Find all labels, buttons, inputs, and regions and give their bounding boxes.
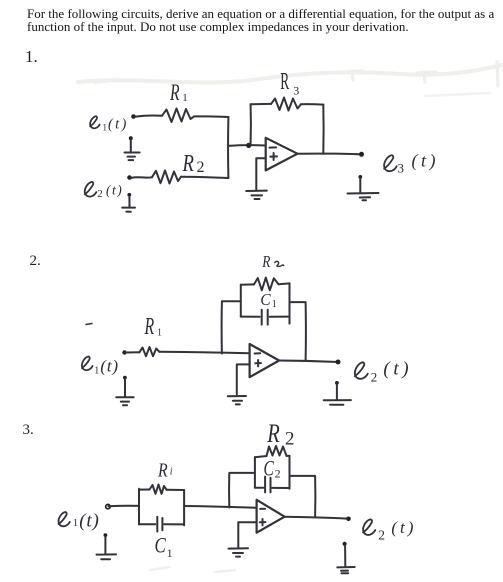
capacitor C1 c2 — [241, 310, 290, 325]
svg-text:C: C — [260, 291, 270, 309]
wire parallel block right c2 — [289, 283, 291, 323]
svg-text:(t): (t) — [412, 150, 440, 171]
svg-text:2: 2 — [97, 188, 103, 200]
node e1 input c3 — [106, 504, 110, 508]
wire + input to ground c3 — [238, 522, 256, 547]
svg-text:3: 3 — [398, 161, 405, 176]
ground below e1 — [125, 136, 140, 160]
node e1 input c2 — [122, 350, 126, 354]
wire op-amp output c3 — [285, 517, 347, 519]
svg-text:2: 2 — [275, 467, 281, 481]
stray mark — [86, 324, 92, 325]
label e3(t) — [384, 155, 397, 171]
svg-text:1: 1 — [272, 299, 277, 310]
ground below op-amp U3 — [229, 548, 249, 556]
label e2(t) — [85, 182, 97, 197]
svg-text:C: C — [155, 533, 167, 558]
wire feedback top right — [301, 103, 323, 105]
node e2 output c2 — [336, 360, 341, 365]
wire e1 to R1 c2 — [127, 351, 140, 353]
ground below op-amp U2 — [228, 396, 246, 404]
wire bottom branch left c3 — [139, 523, 155, 525]
wire feedback right vertical c2 — [290, 302, 306, 361]
svg-text:(t): (t) — [106, 183, 123, 198]
label e2(t) c2 — [355, 362, 368, 378]
resistor R3 — [271, 98, 301, 111]
ground below e1 c3 — [97, 533, 117, 559]
wire feedback left vertical c3 — [229, 473, 255, 508]
wire block right vertical c3 — [183, 490, 185, 525]
node e1 input — [131, 114, 136, 119]
svg-text:1: 1 — [182, 92, 188, 104]
svg-text:R: R — [280, 69, 289, 95]
resistor Ri — [150, 485, 167, 494]
wire + input to ground c2 — [237, 364, 250, 394]
svg-text:2: 2 — [197, 159, 205, 176]
wire e1 to R1 — [136, 115, 163, 116]
wire feedback top left — [251, 103, 271, 105]
op-amp U2 — [250, 344, 280, 377]
svg-text:(t): (t) — [383, 358, 412, 379]
wire top branch right c2 — [279, 282, 290, 285]
svg-text:2: 2 — [285, 429, 295, 450]
wire loop left vertical c3 — [254, 457, 256, 488]
wire top branch right c3 fb — [287, 455, 290, 457]
svg-text:1: 1 — [103, 123, 108, 133]
wire + input to ground — [256, 158, 265, 189]
svg-text:1: 1 — [157, 328, 162, 339]
wire R1 to op-amp c2 — [159, 352, 249, 353]
scan smudge streak — [78, 62, 502, 572]
ground below e2 out c3 — [337, 542, 354, 574]
ground below e3 — [348, 175, 379, 200]
wire R2 to vertical — [181, 177, 228, 178]
svg-text:R: R — [144, 314, 155, 340]
wire feedback up — [250, 104, 252, 144]
node junction inverting input — [246, 143, 251, 148]
label e1(t) c3 — [59, 512, 70, 526]
label R1 — [169, 80, 179, 106]
wire parallel block left c2 — [240, 285, 242, 317]
resistor R1 — [162, 109, 194, 123]
svg-text:R: R — [157, 459, 168, 481]
ground below e2 — [122, 193, 135, 212]
ground below e2 out c2 — [324, 381, 351, 405]
label R2 — [182, 150, 194, 177]
op-amp U1 — [266, 138, 298, 171]
wire loop right vertical c3 — [289, 456, 291, 489]
label e1(t) — [90, 116, 100, 128]
wire block to op-amp c3 — [184, 506, 256, 508]
wire e2 to R2 — [132, 176, 153, 179]
label C1 c2 — [260, 291, 270, 309]
svg-text:R: R — [261, 253, 271, 272]
label C1 c3 — [155, 533, 167, 558]
svg-text:(t): (t) — [391, 518, 416, 537]
svg-text:i: i — [170, 467, 173, 478]
label R1 c2 — [144, 314, 155, 340]
svg-text:2: 2 — [378, 528, 385, 543]
svg-text:(t): (t) — [79, 511, 99, 532]
svg-text:R: R — [182, 150, 194, 177]
wire op-amp output — [298, 153, 361, 156]
wire op-amp output c2 — [279, 361, 336, 362]
op-amp U3 — [257, 500, 285, 533]
svg-text:1: 1 — [167, 546, 173, 560]
wire top branch left c2 — [241, 283, 254, 285]
label Ri — [157, 459, 168, 481]
node e3 output — [359, 152, 364, 157]
svg-text:(t): (t) — [100, 356, 118, 375]
wire block left vertical c3 — [138, 489, 140, 525]
ground below op-amp U1 — [246, 191, 267, 199]
svg-text:1: 1 — [73, 518, 78, 529]
node e2 output c3 — [346, 517, 351, 522]
wire e1 to block c3 — [109, 505, 140, 508]
wire top branch left c3 — [139, 489, 150, 491]
capacitor C2 c3 — [255, 477, 290, 493]
label C2 c3 — [264, 457, 275, 481]
label R3 — [280, 69, 289, 95]
wire junction to op-amp — [228, 144, 265, 147]
svg-text:R: R — [266, 420, 279, 449]
label e2(t) c3 — [363, 519, 375, 534]
wire feedback down to output — [322, 105, 324, 154]
wire feedback right vertical c3 — [290, 476, 316, 517]
svg-text:2: 2 — [371, 370, 378, 385]
label R2 c3 — [266, 420, 279, 449]
capacitor C1 c3 — [157, 517, 184, 532]
svg-text:R: R — [169, 80, 179, 106]
svg-text:(t): (t) — [108, 117, 129, 133]
label e1(t) c2 — [82, 357, 93, 371]
resistor R1 c2 — [140, 347, 160, 356]
wire vertical joining R1 and R2 — [227, 117, 229, 178]
resistor R2 c3 — [267, 446, 287, 456]
ground below e1 c2 — [116, 376, 133, 406]
wire R1 to junction vertical — [194, 115, 228, 118]
node e2 input — [127, 175, 132, 180]
svg-text:1: 1 — [94, 365, 99, 376]
resistor R2 — [152, 171, 181, 184]
resistor R2 c2 — [254, 278, 279, 291]
wire top branch right c3 — [167, 489, 185, 491]
wire top branch left c3 fb — [255, 456, 267, 457]
wire feedback left vertical c2 — [222, 301, 241, 353]
svg-text:3: 3 — [293, 84, 299, 98]
label R2 c2 — [261, 253, 271, 272]
